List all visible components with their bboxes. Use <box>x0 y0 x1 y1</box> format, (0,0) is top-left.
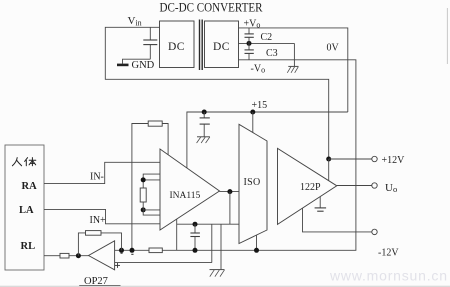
ground earth symbol (OP27 + input) <box>210 270 225 277</box>
label +Vo <box>244 19 261 30</box>
svg-text:RA: RA <box>22 181 38 192</box>
node OP27 output <box>76 253 81 258</box>
node rail ISO supply <box>250 110 255 115</box>
node C5 top <box>193 222 198 227</box>
svg-text:INA115: INA115 <box>170 191 201 201</box>
terminal Uo <box>372 183 377 188</box>
wire Vin drop <box>149 27 151 59</box>
iso-amp U4 ISO <box>239 124 267 243</box>
ground bar GND <box>117 64 129 67</box>
label C2 <box>261 32 273 43</box>
label C3 <box>266 48 278 59</box>
resistor R1 (top feedback) <box>148 121 162 126</box>
wire RG lower pins <box>143 202 160 215</box>
capacitor C6 (122P ground pin) <box>315 197 327 212</box>
wire output to common drop <box>229 192 231 225</box>
wire +12V supply pin stub <box>328 159 330 181</box>
resistor R4 (inv line) <box>149 248 162 253</box>
wire RA to IN- <box>44 162 160 183</box>
wire OP27 + input line <box>115 224 221 269</box>
svg-text:DC: DC <box>213 41 230 53</box>
node RG bottom <box>141 207 146 212</box>
node R1 drop on inv line <box>130 248 135 253</box>
node RG top <box>141 177 146 182</box>
wire ISO supply stub <box>252 112 254 133</box>
wire ISO bottom stub <box>256 235 258 250</box>
label +12V <box>382 155 406 166</box>
svg-text:DC: DC <box>168 41 185 53</box>
label 人体 (drawn strokes) <box>12 158 35 166</box>
scan artifact right edge <box>446 8 448 64</box>
capacitor C2 <box>245 28 254 44</box>
ground earth symbol (DC-DC common) <box>287 66 298 72</box>
capacitor C5 <box>190 224 200 250</box>
ground earth symbol (rail cap) <box>197 137 210 143</box>
node feedback/inv line left <box>119 248 124 253</box>
wire +12V to terminal <box>329 158 372 160</box>
wire RL lead <box>44 255 60 257</box>
watermark www.mornsun.cn <box>329 268 448 284</box>
resistor R2 (RL series) <box>60 253 69 258</box>
label GND <box>132 60 155 71</box>
label Vin <box>128 15 142 28</box>
wire RG upper pins <box>143 174 160 188</box>
wire GND <box>123 59 151 63</box>
wire +15 rail <box>187 112 348 168</box>
wire -12V supply pin <box>303 208 372 232</box>
label +15 <box>252 100 268 111</box>
label RA <box>22 181 38 192</box>
wire -Vo / 0V return <box>115 60 356 251</box>
terminal +12V <box>372 156 377 161</box>
node INA output <box>227 189 232 194</box>
label Uo <box>385 182 397 194</box>
svg-text:LA: LA <box>19 205 34 216</box>
wire R1 left lead down <box>132 124 148 251</box>
svg-text:-Vo: -Vo <box>251 64 266 75</box>
label 0V <box>327 43 340 54</box>
svg-text:C3: C3 <box>266 48 278 59</box>
transformer T1 core bars <box>200 20 203 71</box>
capacitor C1 <box>143 40 157 45</box>
wire input-loop (left vertical, top edge, bottom +12V feed rail) <box>105 27 328 159</box>
wire Uo output <box>337 185 372 187</box>
svg-text:122P: 122P <box>300 182 321 193</box>
terminal -12V <box>372 229 377 234</box>
wire 0V to earth <box>293 43 295 66</box>
wire R1 right lead to V+ slant pin <box>162 124 168 155</box>
capacitor C3 <box>245 43 254 59</box>
capacitor C4 rail decoupling <box>200 112 210 137</box>
label RL <box>21 241 36 252</box>
wire feedback to inv node <box>101 233 122 250</box>
op-amp U2 INA115 <box>160 149 220 230</box>
svg-text:+12V: +12V <box>382 155 406 166</box>
DC module U1 primary box <box>160 21 195 68</box>
wire LA to IN+ <box>44 209 160 223</box>
svg-text:IN-: IN- <box>90 172 104 183</box>
svg-text:RL: RL <box>21 241 36 252</box>
wire 0V midpoint <box>239 42 295 44</box>
label LA <box>19 205 34 216</box>
svg-text:0V: 0V <box>327 43 340 54</box>
svg-text:IN+: IN+ <box>90 215 107 226</box>
DC module U1 secondary box <box>205 21 239 68</box>
svg-text:www.mornsun.cn: www.mornsun.cn <box>329 268 448 284</box>
wire +Vo <box>239 28 348 112</box>
label OP27 <box>79 276 120 287</box>
label + input marker <box>115 263 120 268</box>
node ISO stub on 0V line <box>254 248 259 253</box>
wire feedback riser <box>78 233 85 256</box>
wire common drop to op+ line <box>211 224 213 262</box>
resistor RG <box>140 188 146 202</box>
svg-text:C2: C2 <box>261 32 273 43</box>
label IN- <box>90 172 104 183</box>
wire isolated common line <box>177 223 239 225</box>
wire INA output <box>220 191 240 193</box>
op-amp U5 122P <box>278 148 337 224</box>
label IN+ <box>90 215 107 226</box>
scan artifact bottom edge <box>0 285 450 287</box>
label -Vo <box>251 64 266 75</box>
svg-text:ISO: ISO <box>244 177 261 188</box>
svg-text:GND: GND <box>132 60 155 71</box>
node C5 bottom on 0V line <box>193 248 198 253</box>
human body box 人体 <box>5 145 44 270</box>
op-amp U3 OP27 <box>89 241 115 270</box>
svg-text:+Vo: +Vo <box>244 19 261 30</box>
node C2/C3 midpoint <box>247 41 252 46</box>
tick marks below inv-line nodes <box>121 253 134 254</box>
svg-text:Uo: Uo <box>385 182 397 194</box>
wire INA ref pin drop <box>176 219 178 250</box>
node +12V junction <box>326 157 331 162</box>
node rail decoupling <box>202 110 207 115</box>
svg-text:+15: +15 <box>252 100 268 111</box>
wire R2 to OP27 output <box>69 255 89 257</box>
svg-text:-12V: -12V <box>378 248 399 259</box>
label -12V <box>378 248 399 259</box>
title DC-DC CONVERTER <box>160 0 264 14</box>
svg-text:DC-DC CONVERTER: DC-DC CONVERTER <box>160 0 264 14</box>
resistor R3 (OP27 feedback) <box>86 231 102 236</box>
